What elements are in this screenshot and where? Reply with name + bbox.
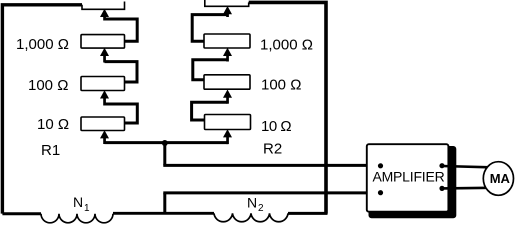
wire: R1 1,000-ohm wiper to 100-ohm element [105,62,138,82]
resistor: top element of R1 bank (cut off at top edge) [82,2,125,10]
terminal dot: amplifier lower-left input [378,190,383,195]
wire: bottom rail between N1 and N2 [113,212,214,215]
terminal dot: amplifier upper-left input [378,163,383,168]
wire: outer loop left border and top-left border [2,5,82,214]
resistor R2 10-ohm element [205,115,251,130]
wire: outer loop top-right border [249,2,326,213]
wiper arrow of R1 100-ohm element [100,90,109,105]
wire: R2 100-ohm wiper to 10-ohm element [192,102,228,120]
svg-text:100 Ω: 100 Ω [261,77,301,94]
amplifier U1 box [367,144,449,212]
svg-text:N: N [247,195,257,211]
meter MA circle [483,162,513,196]
wire: bottom rail left segment from outer border [2,212,41,215]
terminal dot: amplifier upper-right output [439,163,444,168]
wiper arrow of R2 10-ohm element [223,129,232,144]
wiper arrow of R2 1,000-ohm element [223,48,232,62]
wire: wiper rail joining R1 wiper to R2 wiper [105,141,229,144]
wiper arrow of R2 100-ohm element [223,90,232,104]
resistor R2 1,000-ohm element [204,34,250,48]
amplifier U1 drop shadow [369,146,457,218]
wiper arrow of R1 10-ohm element [100,130,109,144]
svg-text:1: 1 [84,203,90,214]
wire: R2 top wiper to 1,000 ohm element [192,15,227,42]
svg-text:2: 2 [258,203,264,214]
resistor R2 100-ohm element [204,75,250,89]
wire: R1 100-ohm wiper to 10-ohm element [105,104,138,123]
wire: amplifier upper output to meter [442,166,490,167]
svg-text:1,000 Ω: 1,000 Ω [16,36,69,53]
wiper arrow of R2 top element [223,6,232,17]
resistor R1 1,000-ohm element [81,35,125,49]
wiper arrow of R1 top element [100,9,109,21]
svg-text:MA: MA [490,171,511,186]
svg-text:10 Ω: 10 Ω [37,116,69,133]
svg-text:R2: R2 [263,141,282,158]
wire: amplifier lower output to meter [442,187,490,190]
resistor R1 100-ohm element [81,77,125,91]
wire: R1 top wiper to 1,000 ohm element [105,19,138,41]
svg-text:N: N [73,194,83,210]
svg-text:1,000 Ω: 1,000 Ω [260,36,313,53]
inductor N1 winding [41,214,113,223]
svg-text:AMPLIFIER: AMPLIFIER [372,169,444,185]
wire: upper amplifier input lead [163,164,380,167]
svg-text:10 Ω: 10 Ω [261,118,291,135]
inductor N2 winding [214,213,288,221]
wire: bottom rail right segment to outer border [288,212,328,215]
svg-text:100 Ω: 100 Ω [28,77,68,94]
wire: riser from bottom rail to lower amplifier lead [163,193,166,213]
wiper arrow of R1 1,000-ohm element [100,48,109,63]
wire: junction drop to upper amplifier lead [163,143,166,165]
resistor: top element of R2 bank (cut off at top edge) [205,0,249,6]
wire: lower amplifier input lead [163,191,380,194]
svg-text:R1: R1 [41,142,60,159]
resistor R1 10-ohm element [81,117,125,131]
wire: R2 1,000-ohm wiper to 100-ohm element [193,60,228,80]
node: junction of wiper rail with amplifier lead [162,140,168,146]
terminal dot: amplifier lower-right output [439,186,444,191]
